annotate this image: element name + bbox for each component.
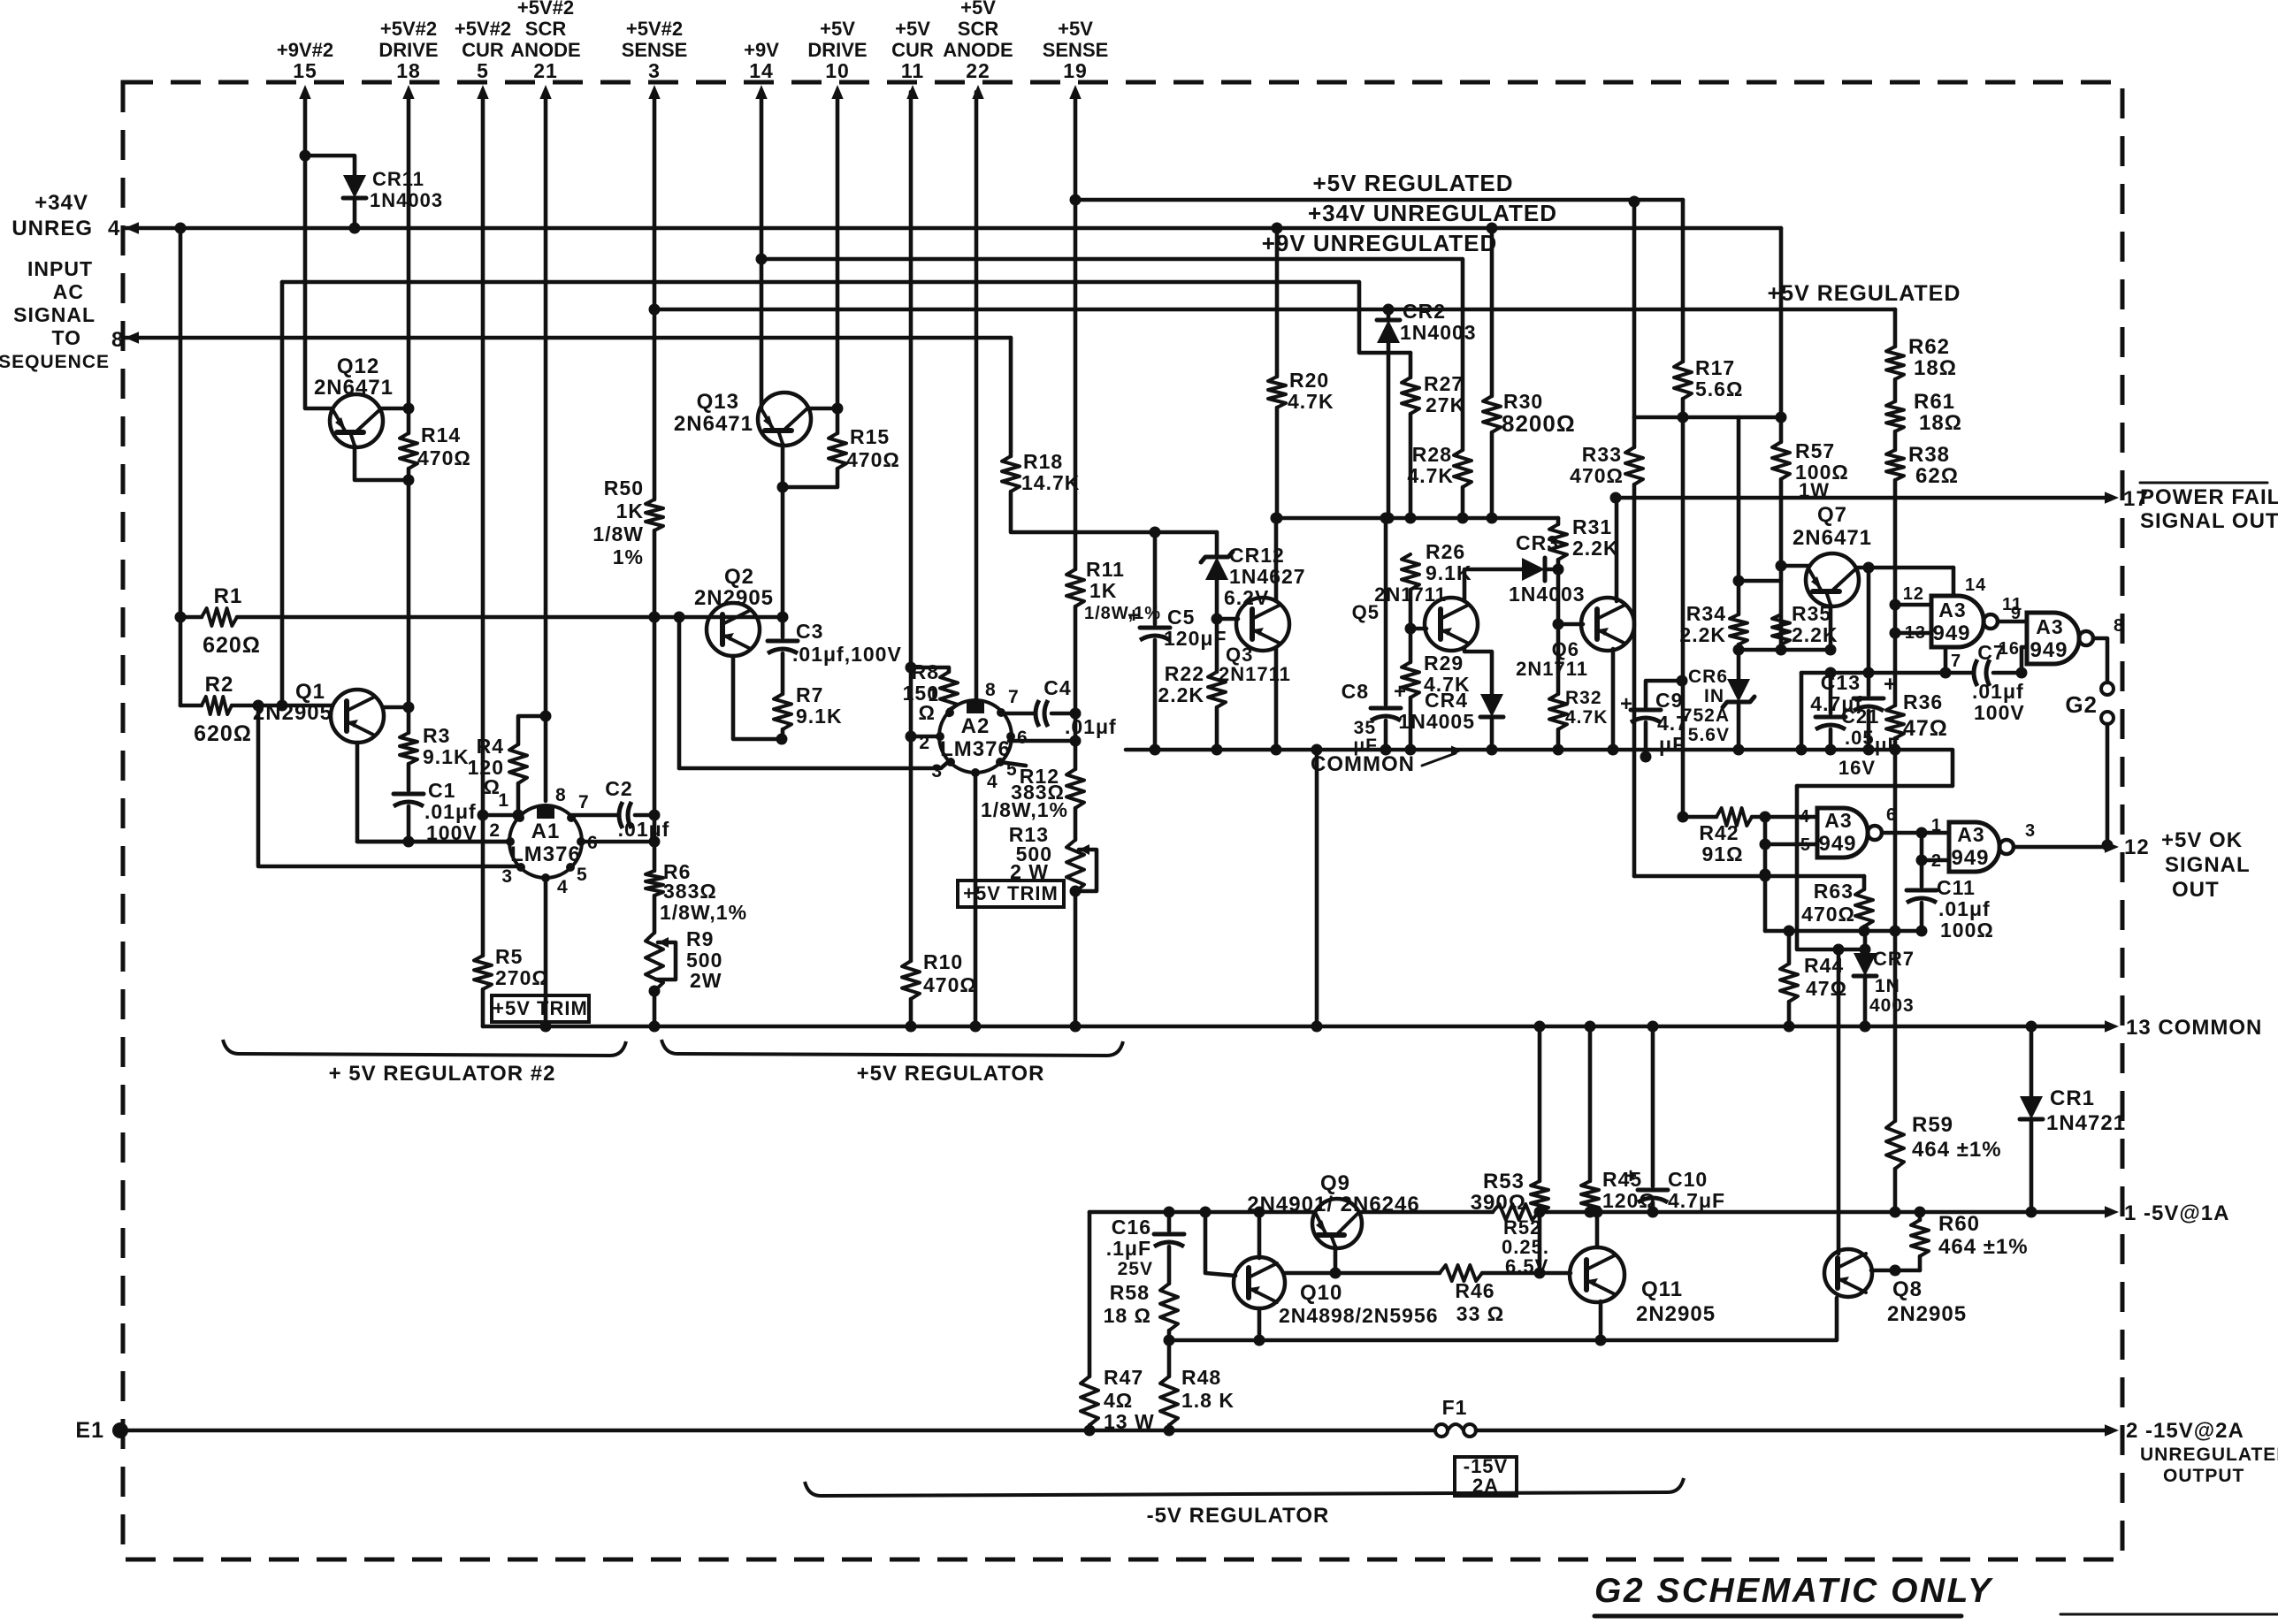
svg-text:62Ω: 62Ω — [1915, 464, 1959, 488]
svg-text:C11: C11 — [1937, 876, 1976, 899]
svg-text:Q12: Q12 — [337, 355, 379, 378]
resistor R47 — [1088, 1212, 1092, 1376]
svg-text:DRIVE: DRIVE — [807, 39, 867, 61]
svg-text:4.7: 4.7 — [1657, 712, 1688, 735]
svg-text:R22: R22 — [1165, 662, 1204, 685]
svg-text:G2 SCHEMATIC ONLY: G2 SCHEMATIC ONLY — [1594, 1572, 1993, 1610]
svg-text:9.1K: 9.1K — [423, 745, 470, 768]
wire R14 column down — [407, 480, 411, 733]
svg-text:E1: E1 — [75, 1418, 104, 1443]
node 586/R30 — [1487, 513, 1498, 524]
node R18-line/C5 — [1150, 527, 1161, 538]
svg-text:2N6471: 2N6471 — [674, 412, 753, 436]
node R31/CR3 — [1553, 564, 1564, 576]
svg-text:R33: R33 — [1582, 443, 1622, 466]
svg-text:752A: 752A — [1682, 705, 1730, 726]
op-amp regulator A1 LM376 — [509, 805, 582, 878]
wire pin3 vertical (mid) — [653, 530, 657, 842]
wire G2 down to +5VOK line — [2106, 724, 2110, 845]
wire A1 pin1 row — [483, 813, 520, 818]
svg-text:C8: C8 — [1342, 680, 1369, 703]
resistor R18 — [1002, 456, 1020, 492]
wire +5V link R33col-R17col-R57col — [1634, 416, 1781, 420]
svg-text:C3: C3 — [796, 620, 823, 643]
svg-text:3: 3 — [501, 866, 513, 887]
svg-text:A3: A3 — [1957, 823, 1984, 846]
svg-text:A1: A1 — [531, 820, 561, 843]
resistor R15 — [836, 408, 840, 433]
svg-text:A3: A3 — [2036, 615, 2063, 638]
svg-text:R3: R3 — [423, 724, 450, 747]
svg-text:C13: C13 — [1821, 671, 1861, 694]
svg-text:3: 3 — [648, 59, 661, 82]
resistor R53 — [1538, 1026, 1542, 1181]
svg-text:R38: R38 — [1908, 443, 1950, 467]
svg-text:R32: R32 — [1565, 688, 1602, 708]
wire A1 pin4 to bus — [544, 878, 548, 1026]
regulator brackets — [223, 1040, 626, 1056]
resistor R14 — [407, 408, 411, 433]
svg-text:CR1: CR1 — [2050, 1086, 2095, 1110]
svg-text:470Ω: 470Ω — [1801, 903, 1855, 926]
node R33 top on +5V rail — [1629, 196, 1640, 208]
svg-text:+5V TRIM: +5V TRIM — [963, 882, 1059, 904]
rail 1516 (Q8 base row) — [1169, 1298, 1837, 1340]
gate A3-2 pin10 stub — [2022, 645, 2027, 650]
svg-text:4.7K: 4.7K — [1288, 390, 1334, 413]
transistor Q7 — [1806, 553, 1859, 606]
resistor R28 — [1454, 450, 1472, 487]
svg-text:16: 16 — [1999, 639, 2020, 659]
svg-text:.01μf: .01μf — [1065, 715, 1117, 738]
resistor R52 (in line) — [1493, 1204, 1539, 1220]
svg-text:2N2905: 2N2905 — [1636, 1302, 1716, 1326]
node R20/586 — [1272, 513, 1283, 524]
resistor R33 column — [1632, 202, 1637, 447]
svg-text:C2: C2 — [605, 777, 632, 800]
gate A3-1 pin stubs — [1895, 603, 1931, 607]
svg-text:SCR: SCR — [525, 18, 567, 40]
svg-text:5: 5 — [477, 59, 489, 82]
node A2 pin2 stub — [906, 731, 917, 743]
resistor R42 — [1683, 815, 1716, 820]
node Q8 collector drop — [1833, 944, 1845, 956]
svg-text:6: 6 — [1886, 805, 1897, 825]
svg-text:1N4003: 1N4003 — [370, 189, 443, 211]
svg-text:1K: 1K — [1089, 579, 1117, 602]
pin 18 arrow — [402, 85, 414, 99]
transistor Q6 — [1581, 598, 1634, 651]
svg-text:F1: F1 — [1442, 1396, 1468, 1419]
svg-text:47Ω: 47Ω — [1806, 977, 1847, 1000]
node C1 bottom — [403, 836, 415, 848]
svg-text:2.2K: 2.2K — [1792, 623, 1838, 646]
svg-text:1N4005: 1N4005 — [1398, 710, 1475, 733]
svg-text:R53: R53 — [1483, 1170, 1525, 1193]
transistor Q11 — [1570, 1247, 1624, 1302]
svg-text:1/8W: 1/8W — [592, 522, 644, 545]
svg-text:+5V#2: +5V#2 — [455, 18, 511, 40]
svg-text:R27: R27 — [1424, 372, 1464, 395]
wire A2 pin6 row — [1009, 739, 1075, 743]
svg-text:R31: R31 — [1572, 515, 1612, 538]
svg-text:R59: R59 — [1912, 1113, 1953, 1137]
+5V TRIM box A2 — [958, 881, 1064, 907]
capacitor C16 / resistor R58 column — [1167, 1212, 1172, 1231]
svg-text:OUTPUT: OUTPUT — [2163, 1466, 2244, 1486]
svg-text:+: + — [1128, 604, 1141, 628]
wire Q5 base — [1410, 627, 1426, 631]
node R1/pin3 SENSE — [649, 612, 661, 623]
node Q2 collector/C3 — [777, 612, 789, 623]
svg-text:C5: C5 — [1167, 606, 1195, 629]
wire Q2 emitter — [733, 656, 778, 739]
node R17/R57 link — [1678, 412, 1689, 423]
nand gate A3-1 — [1931, 596, 1984, 647]
svg-text:R15: R15 — [850, 425, 890, 448]
pin 15 arrow — [299, 85, 310, 99]
wire A2 pin5 stub — [1000, 762, 1026, 766]
svg-text:R42: R42 — [1699, 821, 1739, 844]
svg-text:+5V OK: +5V OK — [2161, 828, 2243, 852]
svg-text:R26: R26 — [1426, 540, 1465, 563]
pin 5 arrow — [477, 85, 488, 99]
wire Q1 collector — [384, 705, 409, 710]
gate A3-4 input 2 wire — [1922, 833, 1949, 860]
capacitor C7 — [1974, 660, 1977, 686]
pin 11 arrow — [906, 85, 918, 99]
svg-text:+: + — [1620, 692, 1633, 716]
svg-text:5: 5 — [1800, 835, 1811, 855]
capacitor C5 — [1153, 532, 1158, 624]
svg-text:Q10: Q10 — [1300, 1281, 1342, 1305]
svg-text:R34: R34 — [1686, 602, 1726, 625]
svg-text:8: 8 — [2114, 616, 2124, 636]
svg-text:2: 2 — [489, 820, 501, 841]
svg-text:R8: R8 — [912, 660, 939, 683]
svg-text:+5V: +5V — [820, 18, 855, 40]
gate A3-2 output 8 — [2093, 638, 2107, 682]
diode CR7 — [1863, 931, 1868, 953]
resistor R62 — [1893, 309, 1898, 347]
resistor R26 — [1402, 554, 1419, 590]
wire Q8 right to R60 — [1871, 1269, 1920, 1273]
svg-text:2N2905: 2N2905 — [1887, 1302, 1967, 1326]
wire to R18 — [1009, 338, 1013, 456]
svg-text:4.7μf: 4.7μf — [1810, 692, 1862, 715]
svg-text:1: 1 — [498, 790, 509, 811]
svg-text:3: 3 — [2025, 821, 2036, 841]
svg-text:1/8W,1%: 1/8W,1% — [660, 901, 747, 924]
svg-text:C1: C1 — [428, 779, 455, 802]
op-amp regulator A2 LM376 — [939, 700, 1012, 773]
node R4 tap — [540, 711, 552, 722]
svg-text:91Ω: 91Ω — [1701, 842, 1743, 865]
svg-text:2N4898/2N5956: 2N4898/2N5956 — [1279, 1304, 1439, 1327]
svg-text:R5: R5 — [495, 945, 523, 968]
svg-text:10: 10 — [825, 59, 850, 82]
wire +34V corner down — [1779, 228, 1784, 442]
resistor R36 body — [1886, 705, 1904, 738]
svg-text:LM376: LM376 — [940, 737, 1011, 761]
svg-text:1/8W,1%: 1/8W,1% — [981, 798, 1068, 821]
node bus/pin3-line — [649, 1021, 661, 1033]
POWER FAIL SIGNAL OUT wire — [1616, 496, 2108, 500]
svg-text:+9V UNREGULATED: +9V UNREGULATED — [1262, 230, 1498, 256]
svg-text:.01μf,100V: .01μf,100V — [792, 643, 902, 666]
gate A3-3 output 6 — [1882, 831, 1949, 835]
svg-text:18Ω: 18Ω — [1914, 356, 1957, 380]
svg-text:14: 14 — [749, 59, 774, 82]
svg-text:1.8 K: 1.8 K — [1181, 1389, 1235, 1412]
wire +34V branch down — [179, 228, 183, 705]
svg-text:1W: 1W — [1799, 479, 1830, 501]
transistor Q13 — [758, 393, 811, 446]
wire Q8 collector drop — [1837, 949, 1841, 1254]
transistor Q8 — [1824, 1249, 1872, 1297]
wire gate1 pin7 down — [1944, 647, 1948, 673]
pin 10 arrow — [831, 85, 843, 99]
svg-text:7: 7 — [1951, 652, 1961, 671]
wire Q2 base riser — [677, 617, 682, 768]
POWER FAIL label — [2140, 482, 2267, 484]
svg-text:5.6Ω: 5.6Ω — [1695, 377, 1743, 400]
+9V UNREGULATED rail — [761, 259, 1463, 450]
nand gate A3-3 — [1817, 808, 1868, 858]
resistor R8 — [911, 667, 949, 672]
pin 22 arrow — [972, 85, 983, 99]
svg-text:1N4003: 1N4003 — [1400, 321, 1477, 344]
resistor R27 — [1409, 353, 1413, 377]
svg-text:+: + — [1884, 672, 1898, 697]
svg-text:μF: μF — [1659, 733, 1686, 756]
wire pin10 vertical +5V DRIVE — [836, 92, 840, 408]
svg-text:OUT: OUT — [2172, 878, 2220, 902]
svg-text:CUR: CUR — [891, 39, 934, 61]
svg-text:.01μf: .01μf — [1972, 680, 2024, 703]
svg-text:+5V REGULATED: +5V REGULATED — [1312, 170, 1513, 196]
-15V output line — [120, 1429, 1434, 1433]
resistor R6 — [653, 842, 657, 871]
rail 1053 (R44 bus) — [1765, 929, 1922, 934]
svg-text:A2: A2 — [961, 714, 990, 738]
gate A3-3 input wires — [1765, 815, 1817, 820]
node R57 top — [1776, 412, 1787, 423]
svg-text:949: 949 — [1932, 621, 1970, 645]
svg-text:CR4: CR4 — [1425, 689, 1468, 712]
wire R38 column down to gates — [1893, 480, 1898, 705]
svg-text:R60: R60 — [1938, 1212, 1980, 1236]
node Q1 collector — [403, 702, 415, 713]
svg-text:2N2905: 2N2905 — [694, 586, 774, 610]
COMMON rail (regulator common) — [1126, 750, 1953, 786]
svg-text:R57: R57 — [1795, 439, 1835, 462]
+34V UNREG bus — [125, 222, 139, 233]
wire pin21 vertical +5V#2 SCR ANODE — [544, 92, 548, 716]
wire pin3 vertical +5V#2 SENSE (top) — [653, 92, 657, 499]
node R29 bottom — [1405, 744, 1417, 756]
svg-text:100Ω: 100Ω — [1940, 919, 1994, 942]
svg-text:C9: C9 — [1655, 689, 1683, 712]
svg-text:LM376: LM376 — [510, 842, 581, 866]
svg-text:2.2K: 2.2K — [1158, 683, 1204, 706]
svg-text:+5V: +5V — [1058, 18, 1093, 40]
resistor R30 column — [1490, 228, 1494, 396]
svg-text:16V: 16V — [1838, 757, 1876, 779]
svg-text:R20: R20 — [1289, 369, 1329, 392]
transistor Q10 — [1234, 1257, 1285, 1308]
transistor Q9 — [1312, 1199, 1362, 1248]
pin 19 arrow — [1069, 85, 1081, 99]
svg-text:2N4901/ 2N6246: 2N4901/ 2N6246 — [1247, 1193, 1419, 1216]
svg-text:POWER FAIL: POWER FAIL — [2140, 485, 2278, 509]
capacitor C10 — [1651, 1026, 1655, 1186]
connector G2 — [2101, 682, 2114, 695]
svg-text:12: 12 — [1903, 584, 1924, 604]
wire pin15 vertical +9V#2 — [303, 92, 308, 156]
wire Q3 emitter — [1274, 647, 1279, 750]
node +34V/v203 — [175, 223, 187, 234]
node pin6 line — [1070, 736, 1082, 747]
pin 21 arrow — [539, 85, 551, 99]
resistor R4 — [518, 716, 546, 744]
svg-text:5.6V: 5.6V — [1688, 725, 1730, 745]
node R1/Q2base riser — [674, 612, 685, 623]
resistor R2 — [202, 697, 232, 714]
resistor R35 — [1772, 614, 1790, 644]
node R8 line — [906, 662, 917, 674]
svg-text:R50: R50 — [604, 477, 644, 499]
wire A1 pin6 row — [579, 840, 654, 844]
svg-text:Q13: Q13 — [697, 390, 739, 414]
resistor R48 — [1167, 1340, 1172, 1376]
INPUT AC SIGNAL wire — [125, 332, 139, 343]
svg-text:Q11: Q11 — [1641, 1277, 1683, 1301]
wire Q12 emitter — [355, 446, 409, 480]
wire R34-R35 link — [1739, 579, 1781, 583]
svg-text:SEQUENCE: SEQUENCE — [0, 352, 110, 372]
svg-text:+5V#2: +5V#2 — [380, 18, 437, 40]
svg-text:13 COMMON: 13 COMMON — [2126, 1016, 2262, 1040]
bus junctions — [1534, 1021, 1546, 1033]
wire A1 pin3 row — [518, 865, 522, 869]
node Q7 base — [1776, 560, 1787, 572]
svg-text:+5V: +5V — [960, 0, 996, 19]
svg-text:R11: R11 — [1086, 558, 1125, 581]
svg-text:A3: A3 — [1938, 599, 1966, 621]
svg-text:Q1: Q1 — [295, 680, 325, 704]
svg-text:μF: μF — [1875, 734, 1900, 756]
node +34V/R20 — [1272, 223, 1283, 234]
wire Q13 collector — [809, 407, 837, 411]
-5V @1A output line — [1089, 1210, 1315, 1215]
resistor R61 — [1893, 379, 1898, 401]
svg-text:19: 19 — [1063, 59, 1088, 82]
svg-text:1N4721: 1N4721 — [2046, 1111, 2126, 1135]
wire A2 pin8 top — [975, 699, 979, 700]
svg-text:ANODE: ANODE — [943, 39, 1013, 61]
svg-text:2N6471: 2N6471 — [1793, 526, 1872, 550]
node +34V/R30 — [1487, 223, 1498, 234]
COMMON bus 13 — [483, 1025, 2108, 1029]
svg-text:R9: R9 — [686, 927, 714, 950]
wire common drop to CR7 jog — [1797, 786, 1865, 949]
svg-text:R17: R17 — [1695, 356, 1735, 379]
resistor R3 — [400, 733, 417, 764]
resistor R34 — [1737, 417, 1741, 614]
transistor Q2 — [707, 603, 760, 656]
A1 pins — [516, 813, 524, 822]
node SENSE3/A1 pin6 line — [649, 836, 661, 848]
svg-text:7: 7 — [578, 792, 590, 812]
pot R13 (+5V trim) — [1074, 808, 1078, 840]
svg-text:1: 1 — [1931, 816, 1942, 835]
svg-text:R61: R61 — [1914, 390, 1955, 414]
svg-text:AC: AC — [53, 280, 84, 303]
svg-text:4: 4 — [108, 217, 120, 240]
svg-text:.01μf: .01μf — [424, 800, 477, 823]
svg-text:R47: R47 — [1104, 1366, 1143, 1389]
resistor R5 — [481, 815, 485, 956]
wire Q1 emitter — [357, 743, 510, 842]
svg-text:SENSE: SENSE — [1043, 39, 1109, 61]
node bus/R13 — [1070, 1021, 1082, 1033]
svg-text:1N4627: 1N4627 — [1229, 565, 1306, 588]
svg-text:C10: C10 — [1668, 1168, 1708, 1191]
svg-text:-5V REGULATOR: -5V REGULATOR — [1147, 1504, 1330, 1528]
wire pin18 vertical +5V#2 DRIVE — [407, 92, 411, 408]
capacitor C21 — [1829, 673, 1833, 713]
wire A2 pin7 / C4 row — [1002, 712, 1036, 716]
node CR2 top — [1383, 304, 1395, 316]
node R32 bottom — [1553, 744, 1564, 756]
svg-text:2.2K: 2.2K — [1679, 623, 1726, 646]
svg-text:2: 2 — [919, 733, 930, 753]
transistor Q1 — [331, 690, 384, 743]
svg-text:13: 13 — [1905, 623, 1926, 643]
capacitor C11 — [1920, 860, 1924, 887]
+5V TRIM box A1 — [492, 995, 589, 1022]
border frame (dashed) — [123, 82, 2122, 1559]
svg-text:15: 15 — [293, 59, 317, 82]
node Q6 collector / power-fail — [1610, 492, 1622, 504]
svg-text:1%: 1% — [613, 545, 644, 568]
node R9 bottom — [649, 986, 661, 997]
svg-text:INPUT: INPUT — [27, 257, 93, 280]
zener CR12 — [1215, 532, 1219, 557]
transistor Q3 — [1236, 598, 1289, 651]
svg-text:33 Ω: 33 Ω — [1456, 1302, 1504, 1325]
node CR7 top — [1860, 944, 1871, 956]
svg-text:R28: R28 — [1412, 443, 1452, 466]
wire R53/Q11 base drop — [1538, 1212, 1542, 1273]
svg-text:1: 1 — [928, 685, 939, 705]
node C5 bottom — [1150, 744, 1161, 756]
nand gate A3-4 — [1949, 822, 1999, 872]
resistor R44 — [1787, 931, 1792, 964]
svg-text:2.2K: 2.2K — [1572, 537, 1619, 560]
svg-text:949: 949 — [2030, 638, 2068, 662]
svg-text:DRIVE: DRIVE — [378, 39, 438, 61]
svg-text:R46: R46 — [1455, 1279, 1494, 1302]
footer line fragment — [2060, 1613, 2278, 1616]
gate A3-1 output 11 — [1998, 620, 2027, 624]
svg-text:+: + — [1624, 1164, 1638, 1188]
wire C13 box left — [1800, 673, 1804, 750]
node pin7/C4 line — [1070, 708, 1082, 720]
svg-text:UNREG: UNREG — [11, 217, 93, 240]
gate A3-1 pin14 top — [1952, 568, 1956, 596]
